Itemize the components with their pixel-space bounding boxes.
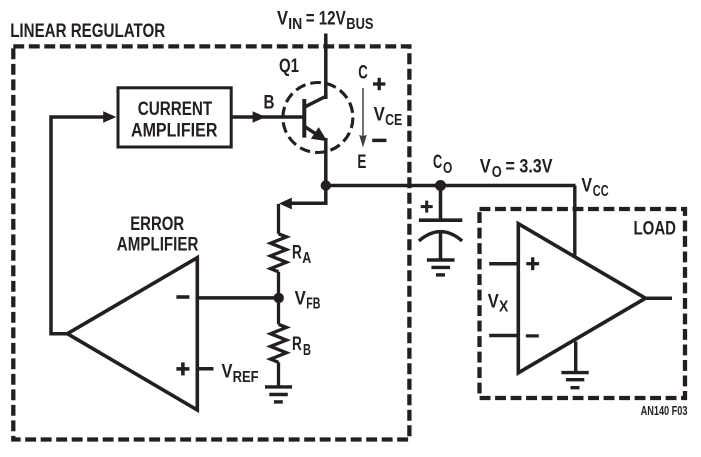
CO plus sign [421,205,433,208]
label CO [433,152,452,177]
wire current amplifier to Q1 base [231,115,302,119]
svg-text:BUS: BUS [346,16,373,33]
VCE thin arrow [362,88,364,137]
wire VCC drop into load [573,186,576,258]
svg-text:IN: IN [288,16,302,33]
svg-text:REF: REF [233,369,259,386]
label VCE [374,105,403,130]
resistor RB [271,324,287,362]
svg-text:AN140 F03: AN140 F03 [641,404,688,418]
svg-text:V: V [277,9,288,30]
label CURRENT AMPLIFIER [131,99,218,141]
wire output rail to load [326,184,576,188]
svg-text:V: V [581,176,592,197]
dashed box LINEAR REGULATOR [13,46,409,439]
svg-text:CURRENT: CURRENT [138,99,213,120]
label VREF [222,361,259,386]
Q1 collector vertical [324,95,328,99]
Q1 dashed circle [283,83,353,153]
label RA [292,242,311,267]
svg-text:V: V [295,288,306,309]
svg-text:LOAD: LOAD [634,219,677,240]
CO top plate [419,218,462,222]
svg-text:C: C [358,62,368,83]
arrowhead pointing left at RA [279,198,292,210]
label VX [488,291,509,315]
op-amp load [518,224,645,373]
label VCC [581,176,608,200]
capacitor CO [419,186,462,275]
svg-text:V: V [488,291,499,312]
arrowhead on base wire [253,111,266,123]
wire VIN supply vertical [324,34,328,98]
svg-text:B: B [264,93,275,114]
wire load ground drop [574,342,577,372]
svg-text:FB: FB [306,295,320,312]
label VIN = 12VBUS [277,9,374,33]
wire VREF to plus input [197,367,213,371]
Q1 emitter arrowhead [311,127,327,141]
load plus input symbol [526,262,539,265]
CO bottom lead [439,232,443,259]
node emitter output junction [321,180,331,190]
current amplifier box [118,88,231,147]
wire VFB to error amp inverting input [197,296,278,300]
label ERROR AMPLIFIER [117,214,199,255]
VCE annotation [357,62,402,173]
wire sense down to RA with arrowhead [291,186,326,204]
wire RA top lead [277,204,280,234]
ground under RB [265,387,292,402]
Q1 base bar [302,99,306,138]
svg-text:CE: CE [385,112,402,129]
minus sign bottom [372,139,386,143]
svg-text:CC: CC [593,183,609,200]
svg-text:V: V [480,157,491,178]
svg-text:R: R [292,334,302,355]
CO top lead [439,186,443,220]
svg-text:O: O [492,164,502,181]
svg-text:= 3.3V: = 3.3V [506,157,553,178]
transistor Q1 [283,83,353,186]
node VFB [274,293,284,303]
svg-text:= 12V: = 12V [306,9,346,30]
wire load output [646,296,673,300]
Q1 emitter vertical wire [324,138,328,186]
svg-text:A: A [302,250,311,267]
wire RB top lead [277,298,280,324]
Q1 collector diagonal [304,96,326,107]
wire error amp output to current amplifier input [51,117,104,334]
ground under CO [427,258,455,261]
svg-text:Q1: Q1 [279,56,299,77]
svg-text:E: E [357,152,366,173]
wire RB bottom lead [277,362,280,385]
error amp minus input symbol [176,295,189,299]
svg-text:R: R [292,242,302,263]
wire load minus input [489,334,518,338]
ground under load op-amp [561,373,588,388]
arrowhead into current amplifier [103,111,116,123]
svg-text:AMPLIFIER: AMPLIFIER [117,235,199,256]
svg-text:AMPLIFIER: AMPLIFIER [131,120,218,141]
label VO = 3.3V [480,157,553,182]
CO curved plate [419,232,462,241]
dashed box LOAD [480,209,686,398]
svg-text:O: O [443,160,452,177]
load minus input symbol [526,334,539,337]
svg-text:V: V [374,105,385,126]
node CO junction [435,180,446,191]
plus sign top [373,82,385,85]
Q1 emitter diagonal [304,126,317,134]
wire RA bottom lead [277,272,280,298]
svg-text:ERROR: ERROR [130,214,184,235]
op-amp error amplifier [67,258,197,410]
svg-text:C: C [433,152,442,173]
label RB [292,334,311,359]
svg-text:B: B [303,342,311,359]
label VFB [295,288,321,312]
svg-text:LINEAR REGULATOR: LINEAR REGULATOR [10,21,165,42]
svg-text:V: V [222,361,233,382]
resistor RA [271,234,287,272]
wire load plus input [489,262,518,266]
error amp plus input symbol [176,367,189,371]
svg-text:X: X [499,298,509,315]
